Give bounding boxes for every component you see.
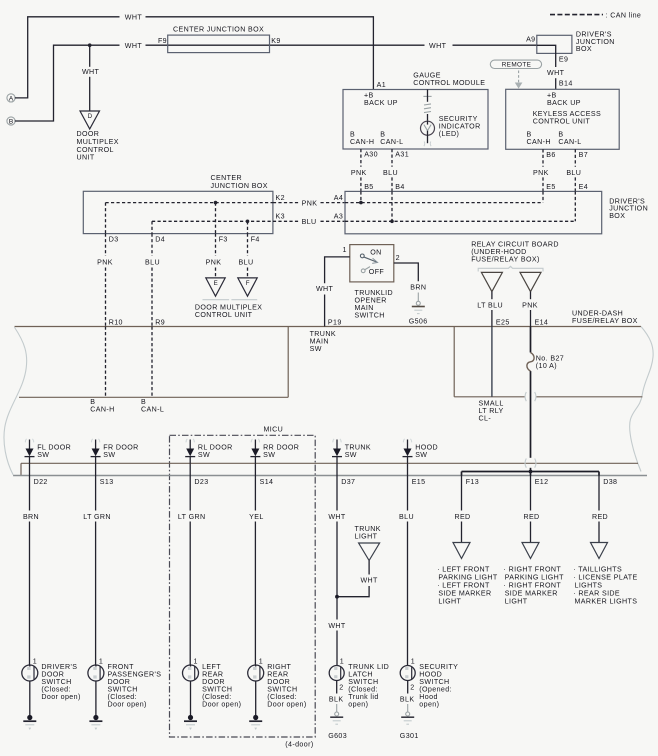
label RL DOOR SW — [198, 444, 233, 460]
svg-text:LT GRN: LT GRN — [178, 513, 206, 521]
svg-text:CAN-H: CAN-H — [90, 406, 114, 414]
svg-text:B5: B5 — [364, 183, 373, 191]
wire resumes to triangle — [461, 522, 463, 543]
svg-text:BLK: BLK — [329, 696, 344, 704]
label RELAY CIRCUIT BOARD (UNDER-HOOD FUSE/RELAY BOX) — [471, 240, 559, 263]
wire BLU dashed K3 to A3 — [273, 220, 299, 222]
label SECURITY INDICATOR (LED) — [439, 115, 481, 138]
wire D4 drop inside center box — [151, 221, 153, 233]
wire BLU dashed net inside driver's box — [345, 220, 575, 222]
under-dash box bottom edge (right of fuse wire) — [536, 396, 643, 398]
svg-text:FUSE/RELAY BOX: FUSE/RELAY BOX — [572, 317, 638, 325]
svg-text:E15: E15 — [412, 478, 426, 486]
driver's door switch SW1 — [22, 665, 38, 681]
wire resumes to P19 — [324, 295, 326, 327]
ground (left rear door switch) — [184, 715, 197, 730]
svg-text:B: B — [527, 130, 532, 138]
label SMALL LT RLY CL- — [479, 399, 504, 422]
wire stub from PNK triangle — [530, 292, 532, 300]
break marks at PNK wire crossing row box top — [525, 459, 536, 468]
label DRIVER'S JUNCTION BOX (large) — [609, 197, 648, 220]
wire switch to ground — [190, 681, 192, 717]
ground (driver's door switch) — [23, 715, 36, 730]
wire continues to A1 drop — [146, 17, 374, 90]
wire resumes to switch pin 1 — [336, 631, 338, 666]
svg-text:CAN-H: CAN-H — [350, 138, 374, 146]
wire D4 dashed resumes to R9 — [151, 268, 153, 327]
svg-text:E: E — [214, 280, 218, 287]
label GAUGE CONTROL MODULE — [413, 72, 485, 87]
keyless access control unit box — [506, 89, 620, 149]
svg-text:· LEFT FRONT: · LEFT FRONT — [437, 582, 490, 590]
svg-text:LIGHT: LIGHT — [505, 598, 528, 606]
wire D3 dashed resumes to R10 — [105, 268, 107, 327]
wire resumes to ground G603 (gray) — [336, 704, 338, 712]
svg-text:D23: D23 — [194, 478, 208, 486]
wire switch pin 2 to BLK — [407, 681, 409, 694]
wire F4 drop inside center box — [247, 221, 249, 233]
label FL DOOR SW — [37, 444, 71, 460]
wire resumes down — [336, 522, 338, 597]
wire LT GRN front passenger's door switch — [95, 476, 97, 511]
wire CAN-L dashed resumes to B4 — [391, 177, 393, 191]
front passenger's door switch SW2 — [88, 665, 104, 681]
svg-text:P19: P19 — [328, 318, 342, 326]
svg-text:F3: F3 — [219, 236, 228, 244]
pin label +B BACK UP (gauge) — [364, 91, 398, 107]
security hood switch SW6 — [400, 666, 415, 681]
svg-text:SW: SW — [415, 451, 427, 459]
pin label B CAN-L (gauge) — [380, 130, 403, 146]
svg-text:SW: SW — [37, 451, 49, 459]
svg-text:WHT: WHT — [547, 69, 565, 77]
svg-text:PNK: PNK — [522, 301, 538, 309]
wire WHT from B through center junction box — [15, 45, 120, 121]
CAN line legend — [550, 11, 641, 19]
svg-text:BRN: BRN — [23, 513, 39, 521]
svg-text:B: B — [558, 130, 563, 138]
wire switch to ground — [95, 681, 97, 717]
svg-text:CL-: CL- — [479, 414, 492, 422]
svg-text:BLU: BLU — [399, 513, 414, 521]
svg-text:CAN-H: CAN-H — [527, 138, 551, 146]
svg-text:1: 1 — [33, 658, 37, 666]
svg-text:S14: S14 — [260, 478, 274, 486]
wire CAN-L dashed from B7 — [574, 149, 576, 167]
svg-text:WHT: WHT — [82, 68, 100, 76]
svg-text:K3: K3 — [276, 213, 285, 221]
wire WHT trunk lid latch — [336, 476, 338, 511]
label FRONT PASSENGER'S DOOR SWITCH — [108, 663, 162, 709]
label TRUNK LIGHT — [355, 525, 381, 541]
svg-text:E9: E9 — [559, 56, 568, 64]
ground G506 — [409, 301, 428, 325]
RL door switch input arrow — [185, 439, 195, 464]
junction dot on WHT wire — [88, 43, 92, 47]
wire BLU dashed resumes to driver's box — [321, 220, 346, 222]
label DRIVER'S DOOR SWITCH — [41, 663, 80, 701]
svg-text:MICU: MICU — [264, 426, 284, 434]
svg-text:WHT: WHT — [316, 285, 334, 293]
svg-text:E25: E25 — [496, 318, 510, 326]
svg-text:CONTROL UNIT: CONTROL UNIT — [195, 311, 253, 319]
svg-text:LIGHT: LIGHT — [438, 598, 461, 606]
svg-text:1: 1 — [342, 246, 346, 254]
svg-text:SW: SW — [263, 451, 275, 459]
svg-text:PNK: PNK — [302, 199, 318, 207]
connector row box bottom edge — [13, 475, 647, 477]
ground G603 — [328, 712, 347, 740]
junction dot F3 on PNK net — [214, 201, 218, 205]
wire resumes to left rear door switch — [189, 522, 191, 666]
svg-text:Door open): Door open) — [41, 693, 80, 701]
wire RED to left front lights — [461, 476, 463, 511]
connector triangle left front lights — [453, 543, 470, 559]
wire pin1 to P19 — [325, 257, 350, 283]
wire resumes to triangle D — [89, 77, 91, 111]
svg-text:WHT: WHT — [125, 42, 143, 50]
svg-text:B4: B4 — [395, 183, 404, 191]
light feed bus wire — [462, 471, 600, 473]
svg-text:FUSE/RELAY BOX): FUSE/RELAY BOX) — [471, 255, 540, 263]
wire PNK dashed resumes to driver's box — [321, 202, 346, 204]
svg-text:B: B — [350, 130, 355, 138]
svg-text:K9: K9 — [271, 37, 280, 45]
connector row box top edge — [21, 462, 638, 464]
wire trunk light branch to junction — [337, 586, 369, 597]
label DOOR MULTIPLEX CONTROL UNIT (middle) — [195, 303, 262, 319]
label DOOR MULTIPLEX CONTROL UNIT (top-left) — [77, 130, 119, 161]
wire E5 drop — [542, 191, 544, 202]
svg-text:Door open): Door open) — [108, 701, 147, 709]
under-dash box right torn edge — [630, 327, 653, 472]
svg-text:CONTROL: CONTROL — [77, 146, 114, 154]
svg-text:CAN-L: CAN-L — [558, 138, 581, 146]
wire resumes to keyless unit B14 — [555, 78, 557, 89]
connector triangle PNK (relay circuit board) — [520, 272, 541, 291]
svg-text:G603: G603 — [328, 732, 347, 740]
wire switch to ground — [255, 681, 257, 717]
pin label B CAN-H (below box) — [90, 398, 114, 414]
label TRUNK MAIN SW — [310, 330, 336, 353]
wire PNK to E14 — [530, 310, 532, 327]
svg-text:R10: R10 — [109, 318, 123, 326]
wire stub from LT BLU triangle — [491, 292, 493, 300]
pin label B CAN-H (gauge) — [350, 130, 374, 146]
label RR DOOR SW — [263, 444, 299, 460]
hood switch input arrow — [403, 439, 413, 464]
svg-text:1: 1 — [411, 657, 415, 665]
svg-text:WHT: WHT — [360, 576, 378, 584]
svg-text:: CAN line: : CAN line — [606, 11, 642, 19]
driver's junction box (small, top right) — [537, 35, 572, 53]
wire resumes to triangle — [530, 522, 532, 543]
wire RED to taillights — [598, 476, 600, 511]
svg-text:BLU: BLU — [239, 259, 254, 267]
svg-text:PNK: PNK — [351, 169, 367, 177]
ground (right rear door switch) — [249, 715, 262, 730]
svg-text:SW: SW — [198, 451, 210, 459]
svg-text:B6: B6 — [546, 151, 555, 159]
wire inside small box down to E9 — [537, 45, 556, 67]
wire CAN-H dashed from B6 — [542, 149, 544, 167]
svg-text:ON: ON — [370, 248, 381, 256]
gauge control module U-GCM box — [343, 90, 488, 150]
op LED circle (security indicator) — [421, 120, 435, 146]
svg-text:Door open): Door open) — [267, 701, 306, 709]
fuse label No. B27 (10 A) — [536, 354, 564, 370]
svg-text:WHT: WHT — [328, 513, 346, 521]
svg-text:· RIGHT FRONT: · RIGHT FRONT — [504, 566, 562, 574]
svg-text:A3: A3 — [334, 213, 343, 221]
label DRIVER'S JUNCTION BOX (top right) — [576, 31, 615, 54]
wire CAN-H dashed resumes to B5 — [360, 177, 362, 191]
wire resumes to ground (gray) — [417, 293, 419, 302]
connector triangle D (door multiplex control unit) — [80, 111, 100, 129]
wire D23 through row box — [189, 463, 191, 475]
fuse F-B27 symbol — [527, 353, 534, 372]
wire resumes to ground G301 (gray) — [407, 704, 409, 712]
svg-text:LT BLU: LT BLU — [477, 301, 503, 309]
wire PNK dashed K2 to A4 — [273, 202, 299, 204]
under-dash fuse/relay box top edge — [15, 326, 642, 328]
break marks at box bottom edge crossing — [525, 392, 536, 401]
svg-text:2: 2 — [339, 684, 343, 692]
svg-text:1: 1 — [340, 657, 344, 665]
label HOOD SW — [415, 444, 438, 460]
svg-text:BRN: BRN — [410, 283, 426, 291]
svg-text:· TAILLIGHTS: · TAILLIGHTS — [573, 566, 622, 574]
svg-text:D: D — [88, 113, 93, 120]
svg-text:RED: RED — [454, 513, 470, 521]
node A (connector circle A) — [7, 94, 15, 103]
wire F3 drop inside center box — [215, 203, 217, 234]
junction dot F4 on BLU net — [246, 220, 250, 224]
connector triangle F (door multiplex) — [238, 278, 257, 296]
wire switch to ground — [29, 681, 31, 717]
wire PNK dashed net inside driver's box — [345, 202, 543, 204]
wire BRN driver's door switch — [29, 476, 31, 511]
pin label B CAN-L (keyless) — [558, 130, 581, 146]
svg-text:BLU: BLU — [145, 259, 160, 267]
svg-text:E4: E4 — [579, 183, 588, 191]
svg-text:(10 A): (10 A) — [536, 362, 557, 370]
MICU dash-dot box — [170, 435, 316, 737]
wire R9 dashed inside under-dash box — [151, 327, 153, 398]
wire D38 drop — [598, 472, 600, 476]
svg-text:R9: R9 — [155, 318, 165, 326]
svg-text:RED: RED — [592, 513, 608, 521]
wire F4 dashed resumes to triangle F — [247, 268, 249, 278]
label KEYLESS ACCESS CONTROL UNIT — [533, 110, 601, 126]
driver's junction box (large) — [345, 191, 602, 233]
label TRUNK LID LATCH SWITCH — [348, 663, 389, 709]
label LEFT FRONT PARKING/SIDE MARKER LIGHT — [437, 566, 498, 606]
wire BLU security hood switch — [407, 476, 409, 511]
svg-text:E5: E5 — [546, 183, 555, 191]
svg-text:· RIGHT FRONT: · RIGHT FRONT — [504, 582, 562, 590]
wire resumes to triangle — [598, 522, 600, 543]
wire resumes to hood switch — [407, 522, 409, 666]
connector row box left corner — [20, 463, 22, 475]
junction dot trunk light branch — [335, 595, 339, 599]
svg-text:PARKING LIGHT: PARKING LIGHT — [505, 574, 564, 582]
security indicator LED internal circuit — [423, 90, 431, 121]
svg-text:RED: RED — [523, 513, 539, 521]
svg-text:S13: S13 — [100, 478, 114, 486]
FL door switch input arrow — [25, 439, 35, 464]
svg-text:MULTIPLEX: MULTIPLEX — [77, 138, 119, 146]
svg-text:F9: F9 — [158, 37, 167, 45]
svg-text:OFF: OFF — [369, 268, 385, 276]
svg-text:SIDE MARKER: SIDE MARKER — [505, 590, 558, 598]
svg-text:CONTROL MODULE: CONTROL MODULE — [413, 79, 485, 87]
wire pin2 to ground G506 — [394, 263, 419, 281]
svg-text:LT GRN: LT GRN — [83, 513, 111, 521]
wire WHT from A to gauge module A1 — [15, 17, 120, 98]
wire YEL right rear door switch — [254, 476, 256, 511]
label RIGHT REAR DOOR SWITCH — [267, 663, 306, 709]
gray bracket over relay triangles — [478, 266, 543, 271]
svg-text:PARKING LIGHT: PARKING LIGHT — [438, 574, 497, 582]
wire F13 drop — [461, 472, 463, 476]
svg-text:2: 2 — [410, 684, 414, 692]
svg-text:F13: F13 — [466, 478, 479, 486]
trunk lid latch switch SW5 — [329, 666, 344, 681]
label TRUNKLID OPENER MAIN SWITCH — [355, 289, 394, 320]
svg-text:PNK: PNK — [206, 259, 222, 267]
svg-text:(LED): (LED) — [439, 130, 459, 138]
label UNDER-DASH FUSE/RELAY BOX — [572, 310, 638, 326]
wire segment into driver's junction box A9 — [453, 44, 537, 46]
right rear door switch SW4 — [248, 665, 264, 681]
svg-text:WHT: WHT — [429, 42, 447, 50]
wire F3 dashed resumes to triangle E — [215, 268, 217, 278]
svg-text:BOX: BOX — [609, 212, 625, 220]
under-dash box divider 2 — [453, 327, 455, 397]
wire B4 drop — [391, 191, 393, 221]
wire CAN-H dashed from A30 — [360, 149, 362, 167]
svg-text:BLU: BLU — [302, 218, 317, 226]
svg-text:G301: G301 — [400, 732, 419, 740]
svg-text:JUNCTION BOX: JUNCTION BOX — [211, 182, 268, 190]
pin label B CAN-L (below box) — [141, 398, 164, 414]
label FR DOOR SW — [103, 444, 138, 460]
svg-text:BLK: BLK — [400, 696, 415, 704]
wire RED to right front lights — [530, 476, 532, 511]
svg-text:SIDE MARKER: SIDE MARKER — [438, 590, 491, 598]
wire D3 drop inside center box — [105, 203, 107, 234]
svg-text:D37: D37 — [341, 478, 355, 486]
svg-text:· LEFT FRONT: · LEFT FRONT — [437, 566, 490, 574]
center junction box (second) — [83, 191, 273, 233]
junction dot light feed bus — [529, 470, 533, 474]
wire resumes to front passenger's door switch — [95, 522, 97, 666]
wire continues to trunk lid latch switch — [336, 597, 338, 620]
connector triangle E (door multiplex) — [206, 278, 225, 296]
wire D3 dashed below center box — [105, 234, 107, 256]
svg-text:BACK UP: BACK UP — [547, 99, 581, 107]
svg-text:E12: E12 — [535, 478, 549, 486]
wire LT GRN left rear door switch — [189, 476, 191, 511]
svg-text:CONTROL UNIT: CONTROL UNIT — [533, 118, 591, 126]
switch contacts ON/OFF — [360, 248, 384, 276]
svg-text:BOX: BOX — [576, 45, 592, 53]
svg-text:B14: B14 — [559, 79, 573, 87]
svg-text:· LICENSE PLATE: · LICENSE PLATE — [573, 574, 637, 582]
wire F3 dashed below center box — [215, 234, 217, 256]
pin label B CAN-H (keyless) — [527, 130, 551, 146]
svg-text:A1: A1 — [377, 81, 386, 89]
svg-text:LIGHT: LIGHT — [355, 532, 378, 540]
wire E4 drop — [574, 191, 576, 221]
svg-text:A31: A31 — [395, 150, 409, 158]
wire BLU dashed net inside center box (K3) — [152, 220, 273, 222]
under-dash box bottom edge (right section) — [454, 396, 525, 398]
label RIGHT FRONT PARKING/SIDE MARKER LIGHT — [504, 566, 565, 606]
wire R10 dashed inside under-dash box — [105, 327, 107, 398]
svg-text:B: B — [380, 130, 385, 138]
svg-text:1: 1 — [259, 658, 263, 666]
remote key fob symbol — [490, 60, 541, 69]
wire E15 through row box — [407, 463, 409, 475]
dashed gray arrow from remote to keyless unit — [515, 71, 523, 89]
label CENTER JUNCTION BOX (second) — [211, 174, 268, 190]
svg-text:SWITCH: SWITCH — [355, 311, 385, 319]
svg-text:D38: D38 — [603, 478, 617, 486]
wire switch pin 2 to BLK — [336, 681, 338, 694]
under-dash box left torn edge — [4, 327, 27, 475]
svg-text:MARKER LIGHTS: MARKER LIGHTS — [575, 598, 638, 606]
svg-text:DOOR: DOOR — [77, 130, 100, 138]
wire CAN-L dashed from A31 — [391, 149, 393, 167]
svg-text:2: 2 — [396, 254, 400, 262]
connector triangle LT BLU (relay circuit board) — [481, 272, 502, 291]
under-dash box bottom edge (left section) — [19, 396, 288, 398]
label TAILLIGHTS LICENSE PLATE REAR SIDE MARKER — [573, 566, 637, 606]
connector triangle right front lights — [522, 543, 539, 559]
wire E25 inside under-dash box to relay — [491, 327, 493, 397]
label SECURITY HOOD SWITCH — [419, 663, 458, 709]
wire resumes to right rear door switch — [254, 522, 256, 666]
svg-text:open): open) — [419, 701, 439, 709]
svg-text:· REAR SIDE: · REAR SIDE — [573, 590, 620, 598]
svg-text:(4-door): (4-door) — [285, 741, 313, 749]
svg-text:1: 1 — [194, 658, 198, 666]
svg-text:CAN-L: CAN-L — [141, 406, 164, 414]
wire E12 drop — [530, 472, 532, 476]
svg-text:Door open): Door open) — [202, 701, 241, 709]
ground G301 — [400, 712, 419, 740]
pin label +B BACK UP (keyless) — [547, 91, 581, 107]
svg-text:SW: SW — [345, 451, 357, 459]
svg-text:D3: D3 — [109, 236, 119, 244]
junction dot B5 — [359, 201, 363, 205]
wire stub from trunk light triangle — [368, 561, 370, 575]
svg-text:D4: D4 — [155, 236, 165, 244]
under-dash box divider 1 — [287, 327, 289, 398]
svg-text:E14: E14 — [535, 318, 549, 326]
svg-text:PNK: PNK — [533, 169, 549, 177]
wire PNK feed through row box — [530, 468, 532, 472]
svg-text:G506: G506 — [409, 317, 428, 325]
svg-text:UNIT: UNIT — [77, 154, 95, 162]
wire F4 dashed below center box — [247, 234, 249, 256]
svg-text:F4: F4 — [251, 236, 260, 244]
connector triangle trunk light — [359, 543, 380, 561]
svg-text:A30: A30 — [364, 150, 378, 158]
svg-text:SW: SW — [310, 345, 322, 353]
